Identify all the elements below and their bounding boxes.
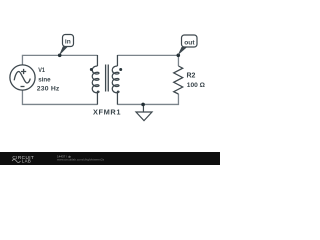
svg-text:R2: R2 bbox=[187, 72, 196, 79]
svg-text:100 Ω: 100 Ω bbox=[187, 82, 206, 89]
svg-text:in: in bbox=[65, 39, 71, 46]
svg-text:XFMR1: XFMR1 bbox=[93, 107, 121, 116]
svg-text:LAB: LAB bbox=[22, 158, 31, 163]
svg-text:V1: V1 bbox=[38, 67, 45, 74]
svg-text:sine: sine bbox=[38, 76, 51, 83]
svg-text:out: out bbox=[184, 39, 195, 46]
svg-text:230 Hz: 230 Hz bbox=[37, 85, 60, 92]
svg-text:www.circuitlab.com/c/hgfvbtwem: www.circuitlab.com/c/hgfvbtwemt2s bbox=[57, 157, 105, 161]
